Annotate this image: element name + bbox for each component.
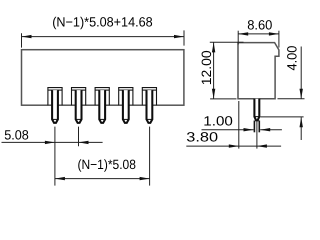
pin 3 bbox=[99, 90, 105, 123]
pin housing box 1 bbox=[48, 88, 62, 106]
svg-text:5.08: 5.08 bbox=[4, 127, 29, 142]
svg-text:1.00: 1.00 bbox=[203, 114, 233, 129]
extension line below pin 2 bbox=[78, 127, 80, 147]
svg-text:(N−1)*5.08: (N−1)*5.08 bbox=[78, 157, 136, 172]
pin housing box 3 bbox=[95, 88, 109, 106]
side view pin bbox=[254, 99, 259, 121]
pin 2 bbox=[76, 90, 82, 123]
extension line below pin 1 bbox=[54, 127, 56, 186]
front view body outline bbox=[22, 50, 184, 105]
dimension 3.80 line bbox=[186, 144, 281, 147]
pin edge extension lines for 1.00 bbox=[254, 121, 259, 133]
dimension 8.60 extension lines bbox=[237, 31, 239, 45]
svg-text:8.60: 8.60 bbox=[247, 17, 272, 32]
svg-text:4.00: 4.00 bbox=[284, 46, 299, 71]
pin housing box 4 bbox=[119, 88, 133, 106]
dimension 4.00 line bbox=[300, 47, 303, 141]
pin 5 bbox=[147, 90, 153, 123]
pin 1 bbox=[52, 90, 58, 123]
dimension 1.00 line bbox=[202, 128, 282, 131]
dimension (N-1)*5.08+14.68 line bbox=[22, 35, 185, 38]
dimension 5.08 line bbox=[2, 141, 103, 144]
dimension 12.00 extension lines bbox=[210, 41, 244, 43]
dimension (N-1)*5.08+14.68 extension line right bbox=[183, 30, 185, 45]
pin housing box 5 bbox=[142, 88, 156, 106]
svg-text:12.00: 12.00 bbox=[199, 50, 214, 85]
svg-text:(N−1)*5.08+14.68: (N−1)*5.08+14.68 bbox=[52, 14, 153, 29]
dimension (N-1)*5.08 line bbox=[55, 177, 150, 180]
extension line from side body left edge down bbox=[238, 101, 240, 149]
svg-text:3.80: 3.80 bbox=[186, 129, 218, 144]
pin 4 bbox=[123, 90, 129, 123]
dimension 12.00 line bbox=[212, 42, 215, 98]
extension line below pin 5 bbox=[149, 127, 151, 186]
pin housing box 2 bbox=[72, 88, 86, 106]
dimension 4.00 extension lines bbox=[260, 116, 303, 118]
dimension 8.60 line bbox=[238, 32, 279, 35]
dimension (N-1)*5.08+14.68 extension line left bbox=[21, 33, 23, 47]
pin centre extension line bbox=[256, 121, 258, 149]
side view body outline bbox=[238, 43, 279, 99]
